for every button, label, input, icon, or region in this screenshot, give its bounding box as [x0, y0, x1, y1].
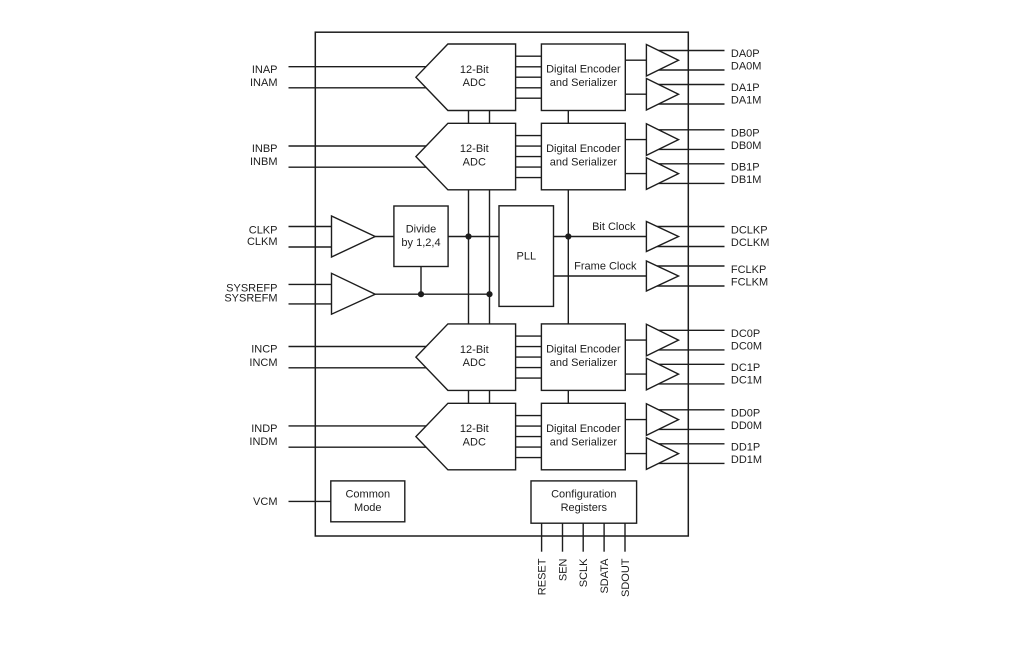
svg-text:CLKP: CLKP — [249, 224, 278, 236]
svg-text:Digital Encoder: Digital Encoder — [546, 64, 621, 76]
svg-text:DA1P: DA1P — [731, 82, 760, 94]
svg-text:DCLKM: DCLKM — [731, 237, 770, 249]
svg-text:SDOUT: SDOUT — [620, 558, 632, 597]
svg-text:DD1P: DD1P — [731, 442, 760, 454]
svg-text:12-Bit: 12-Bit — [460, 64, 489, 76]
svg-text:DC1P: DC1P — [731, 362, 760, 374]
svg-text:DC1M: DC1M — [731, 374, 762, 386]
svg-text:CLKM: CLKM — [247, 236, 278, 248]
svg-text:INCM: INCM — [249, 357, 277, 369]
svg-text:Mode: Mode — [354, 502, 382, 514]
svg-text:FCLKP: FCLKP — [731, 264, 766, 276]
svg-text:DD0P: DD0P — [731, 408, 760, 420]
svg-text:ADC: ADC — [463, 157, 486, 169]
svg-text:INAP: INAP — [252, 64, 278, 76]
svg-text:VCM: VCM — [253, 496, 277, 508]
svg-text:Configuration: Configuration — [551, 489, 616, 501]
svg-text:Frame Clock: Frame Clock — [574, 261, 637, 273]
svg-text:Divide: Divide — [406, 224, 437, 236]
svg-text:and Serializer: and Serializer — [550, 156, 618, 168]
svg-text:ADC: ADC — [463, 437, 486, 449]
svg-text:INDM: INDM — [249, 436, 277, 448]
svg-text:DB0P: DB0P — [731, 128, 760, 140]
svg-text:INBM: INBM — [250, 156, 278, 168]
svg-text:and Serializer: and Serializer — [550, 357, 618, 369]
svg-text:DC0M: DC0M — [731, 340, 762, 352]
svg-text:12-Bit: 12-Bit — [460, 344, 489, 356]
svg-text:SEN: SEN — [558, 558, 570, 581]
svg-text:INDP: INDP — [251, 423, 277, 435]
svg-text:ADC: ADC — [463, 357, 486, 369]
svg-text:Digital Encoder: Digital Encoder — [546, 423, 621, 435]
svg-text:DD1M: DD1M — [731, 454, 762, 466]
svg-text:DC0P: DC0P — [731, 328, 760, 340]
svg-text:INCP: INCP — [251, 344, 277, 356]
svg-text:Registers: Registers — [561, 502, 608, 514]
svg-text:and Serializer: and Serializer — [550, 436, 618, 448]
svg-text:DB0M: DB0M — [731, 140, 762, 152]
svg-text:DB1M: DB1M — [731, 174, 762, 186]
svg-text:DA0M: DA0M — [731, 61, 762, 73]
svg-text:DCLKP: DCLKP — [731, 224, 768, 236]
svg-text:PLL: PLL — [517, 251, 537, 263]
svg-text:FCLKM: FCLKM — [731, 276, 768, 288]
svg-text:DA0P: DA0P — [731, 48, 760, 60]
svg-text:Common: Common — [345, 489, 390, 501]
svg-text:SCLK: SCLK — [578, 558, 590, 587]
svg-text:DA1M: DA1M — [731, 95, 762, 107]
svg-text:SDATA: SDATA — [599, 558, 611, 594]
svg-text:DB1P: DB1P — [731, 162, 760, 174]
svg-text:12-Bit: 12-Bit — [460, 143, 489, 155]
svg-text:INBP: INBP — [252, 143, 278, 155]
svg-text:Bit Clock: Bit Clock — [592, 221, 636, 233]
svg-text:ADC: ADC — [463, 77, 486, 89]
svg-text:Digital Encoder: Digital Encoder — [546, 344, 621, 356]
svg-text:and Serializer: and Serializer — [550, 77, 618, 89]
svg-text:SYSREFM: SYSREFM — [224, 293, 277, 305]
svg-text:DD0M: DD0M — [731, 420, 762, 432]
svg-text:12-Bit: 12-Bit — [460, 423, 489, 435]
svg-text:INAM: INAM — [250, 77, 278, 89]
svg-text:by 1,2,4: by 1,2,4 — [401, 237, 440, 249]
svg-text:Digital Encoder: Digital Encoder — [546, 143, 621, 155]
svg-text:RESET: RESET — [537, 558, 549, 595]
